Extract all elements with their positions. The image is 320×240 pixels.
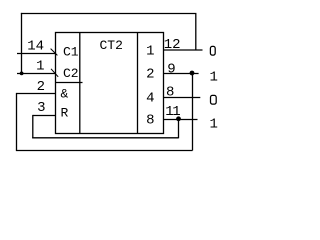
svg-text:2: 2: [146, 67, 154, 83]
wire pin3 vertical: [32, 115, 34, 138]
wire pin11 output: [164, 119, 198, 121]
svg-text:2: 2: [37, 79, 45, 95]
junction dot node C2: [20, 72, 24, 76]
svg-text:C1: C1: [63, 45, 79, 60]
U1 internal divider left: [79, 33, 81, 134]
wire Q2 feedback vertical: [192, 74, 194, 151]
junction dot node Q2: [190, 71, 195, 76]
feedback wire right vertical: [195, 14, 197, 51]
output value 0 (Q1): [210, 46, 215, 55]
dynamic indicator C2: [51, 69, 58, 77]
output value 0 (Q4): [211, 95, 217, 104]
dynamic indicator C1: [51, 49, 58, 56]
U1 left-column separator under C2: [55, 82, 83, 84]
svg-text:CT2: CT2: [100, 38, 123, 53]
wire pin8 output: [164, 97, 201, 99]
svg-text:1: 1: [210, 70, 218, 86]
counter IC U1 body: [56, 33, 164, 134]
bottom feedback wire A: [32, 137, 178, 139]
svg-text:&: &: [61, 87, 69, 102]
svg-text:C2: C2: [63, 66, 79, 81]
wire Q8 feedback vertical: [178, 120, 180, 139]
wire pin2 input: [17, 93, 56, 95]
U1 internal divider right: [137, 33, 139, 134]
bottom feedback wire B: [16, 150, 193, 152]
wire pin9 output: [164, 73, 199, 75]
wire pin14 input: [17, 53, 56, 55]
svg-text:14: 14: [27, 39, 44, 55]
svg-text:R: R: [61, 106, 69, 121]
svg-text:1: 1: [146, 44, 154, 60]
svg-text:1: 1: [36, 59, 44, 75]
wire pin2 vertical: [16, 93, 18, 151]
svg-text:3: 3: [37, 100, 45, 116]
svg-text:4: 4: [146, 91, 154, 107]
svg-text:1: 1: [210, 117, 218, 133]
feedback wire vertical left: [21, 13, 23, 74]
svg-text:8: 8: [146, 113, 154, 129]
wire pin12 output: [164, 49, 203, 51]
wire pin3 input: [33, 115, 56, 117]
svg-text:9: 9: [167, 62, 175, 78]
junction dot node Q8: [176, 116, 181, 121]
wire pin1 input: [17, 73, 56, 75]
feedback wire top: [21, 13, 197, 15]
